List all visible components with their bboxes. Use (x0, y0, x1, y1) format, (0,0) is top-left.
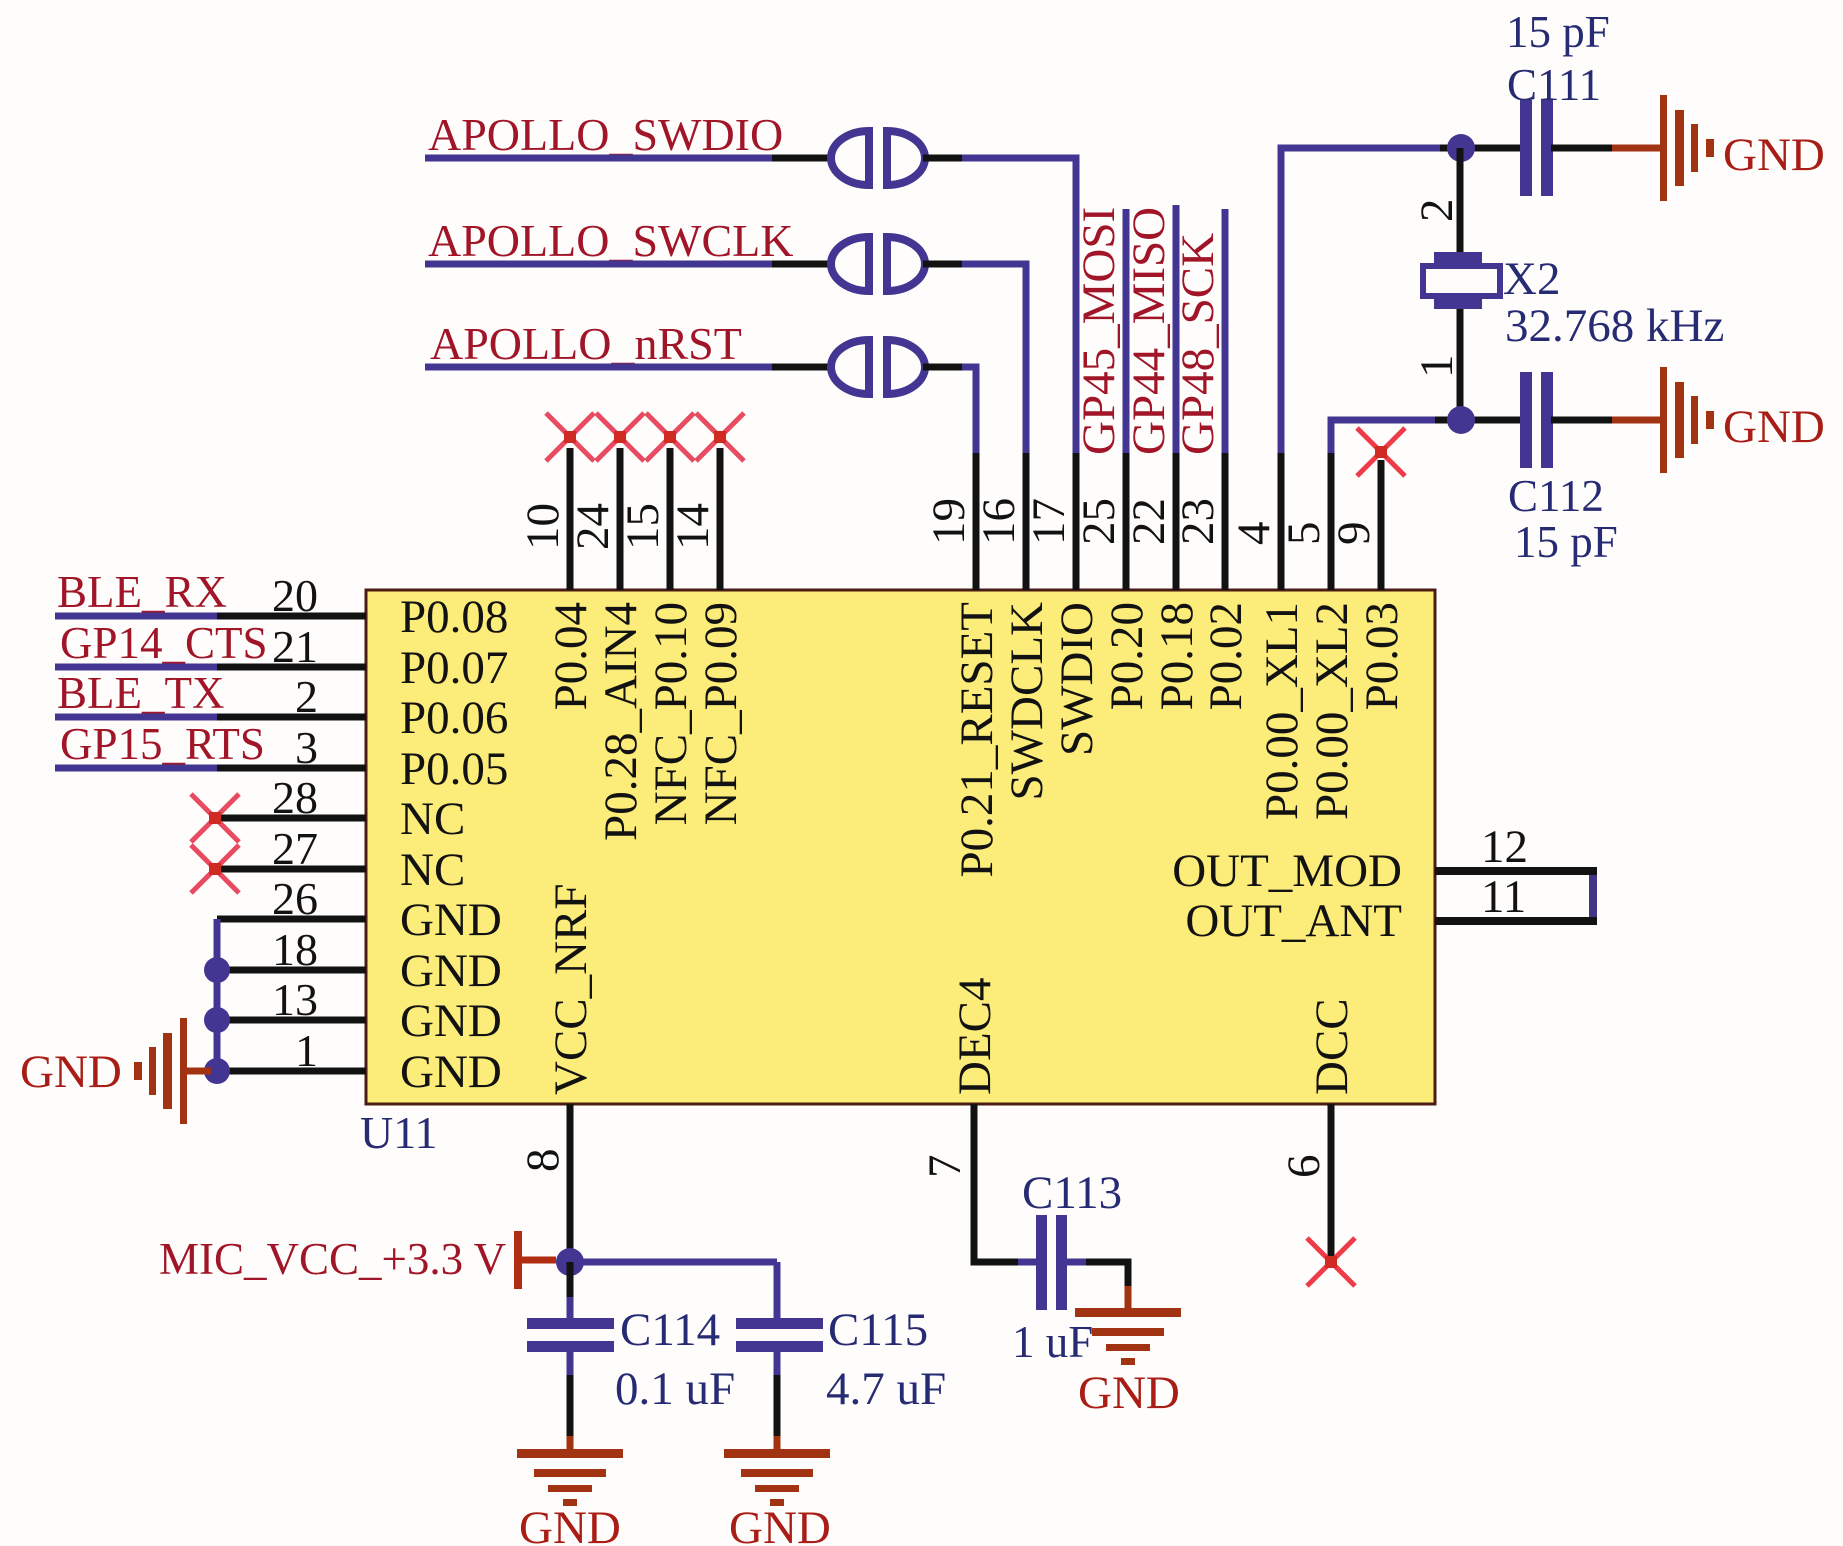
svg-text:27: 27 (272, 823, 318, 874)
wire GND pin 18 (217, 967, 366, 974)
svg-text:1 uF: 1 uF (1012, 1317, 1093, 1367)
wire GP44_MISO to pin 22 (1173, 205, 1180, 453)
capacitor C112 (1520, 372, 1532, 468)
svg-text:GND: GND (1723, 401, 1825, 453)
svg-text:P0.06: P0.06 (400, 692, 508, 744)
svg-text:P0.00_XL2: P0.00_XL2 (1306, 602, 1358, 820)
wire APOLLO_SWCLK to connector (425, 261, 772, 268)
svg-text:4: 4 (1228, 522, 1280, 546)
svg-text:0.1 uF: 0.1 uF (615, 1363, 735, 1415)
svg-text:U11: U11 (360, 1107, 438, 1158)
off-page connector APOLLO_nRST (831, 340, 869, 394)
ground symbol (C114) (517, 1449, 623, 1458)
svg-text:7: 7 (919, 1155, 971, 1179)
ground symbol (left of U11) (180, 1018, 187, 1124)
junction node XL2 (1447, 406, 1475, 434)
GND bus vertical wire (left) (214, 919, 221, 1071)
capacitor C115 (736, 1318, 823, 1329)
svg-text:APOLLO_SWCLK: APOLLO_SWCLK (428, 215, 793, 266)
svg-text:9: 9 (1328, 522, 1380, 546)
wire branch to C115 (774, 1286, 781, 1318)
svg-text:P0.00_XL1: P0.00_XL1 (1256, 602, 1308, 820)
svg-text:15: 15 (617, 503, 669, 550)
svg-text:NC: NC (400, 844, 465, 896)
junction on GND bus at pin 18 (204, 957, 230, 983)
no-connect X on pin 24 (596, 413, 644, 461)
wire stub pin 28 (NC) (215, 815, 366, 822)
wire APOLLO_SWCLK connector to pin 16 (923, 261, 962, 268)
off-page connector APOLLO_SWDIO (831, 131, 869, 185)
ground symbol (C112) (1660, 367, 1667, 473)
wire junction to C114 (567, 1262, 574, 1297)
no-connect X on pin 9 (1357, 428, 1405, 476)
svg-text:GND: GND (400, 945, 502, 997)
svg-text:GND: GND (1723, 129, 1825, 181)
svg-text:12: 12 (1481, 821, 1528, 873)
wire stub pin 14 (717, 448, 724, 590)
node XL2 horizontal wire to C112 (1435, 417, 1520, 424)
wire stub pin 24 (617, 448, 624, 590)
svg-text:X2: X2 (1503, 253, 1560, 305)
svg-text:P0.08: P0.08 (400, 591, 508, 643)
wire net to pin 3 (left, labeled) (55, 765, 217, 772)
svg-text:13: 13 (272, 974, 318, 1025)
svg-text:APOLLO_SWDIO: APOLLO_SWDIO (428, 109, 783, 160)
wire net to pin 20 (left, labeled) (55, 613, 217, 620)
wire C112 to GND (1551, 417, 1612, 424)
svg-text:8: 8 (517, 1149, 569, 1173)
svg-text:GND: GND (20, 1046, 122, 1098)
wire stub pin 27 (NC) (215, 866, 366, 873)
svg-text:20: 20 (272, 570, 318, 621)
wire net to pin 21 (left, labeled) (55, 664, 217, 671)
ground symbol (C111) (1660, 95, 1667, 201)
svg-text:15 pF: 15 pF (1514, 517, 1618, 567)
junction on GND bus at pin 13 (204, 1007, 230, 1033)
svg-text:GP48_SCK: GP48_SCK (1172, 233, 1224, 455)
svg-text:6: 6 (1278, 1155, 1330, 1179)
svg-text:P0.21_RESET: P0.21_RESET (951, 602, 1003, 878)
svg-text:21: 21 (272, 621, 318, 672)
no-connect X on pin 10 (546, 413, 594, 461)
node XL1 horizontal wire to C111 (1440, 145, 1520, 152)
svg-text:GND: GND (1078, 1367, 1180, 1419)
wire APOLLO_nRST to connector (425, 364, 772, 371)
wire APOLLO_SWDIO to connector (425, 155, 772, 162)
wire GND pin 1 (217, 1068, 366, 1075)
wire stub pin 6 (DCC) (1328, 1104, 1335, 1259)
svg-text:32.768 kHz: 32.768 kHz (1505, 300, 1724, 352)
svg-text:NC: NC (400, 793, 465, 845)
svg-text:NFC_P0.10: NFC_P0.10 (645, 602, 697, 825)
svg-text:1: 1 (295, 1025, 318, 1076)
svg-text:11: 11 (1481, 871, 1526, 923)
svg-text:GND: GND (729, 1502, 831, 1546)
svg-text:P0.04: P0.04 (545, 602, 597, 710)
svg-text:BLE_RX: BLE_RX (57, 567, 227, 617)
svg-text:GP15_RTS: GP15_RTS (60, 719, 265, 769)
svg-text:14: 14 (667, 503, 719, 550)
wire pin 5 to crystal node (XL2) (1331, 420, 1435, 453)
no-connect X on pin 27 (191, 845, 239, 893)
wire loop right edge accent (1589, 875, 1597, 917)
svg-text:P0.03: P0.03 (1356, 602, 1408, 710)
junction node XL1 (1447, 134, 1475, 162)
ground symbol (C115) (724, 1449, 830, 1458)
svg-text:OUT_ANT: OUT_ANT (1185, 895, 1402, 947)
wire GND pin 26 (217, 916, 366, 923)
svg-text:18: 18 (272, 924, 318, 975)
svg-text:16: 16 (973, 498, 1025, 545)
svg-text:DCC: DCC (1306, 998, 1358, 1095)
svg-text:GP45_MOSI: GP45_MOSI (1073, 207, 1125, 455)
wire stub pin 15 (667, 448, 674, 590)
no-connect X on pin 6 (1307, 1238, 1355, 1286)
svg-text:C114: C114 (620, 1304, 720, 1356)
wire C111 to GND (1551, 145, 1612, 152)
wire loop pin 12 to pin 11 (1435, 871, 1593, 921)
svg-text:APOLLO_nRST: APOLLO_nRST (430, 318, 742, 369)
ground symbol (C113) (1075, 1308, 1181, 1317)
svg-text:GND: GND (519, 1502, 621, 1546)
svg-text:25: 25 (1073, 498, 1125, 545)
no-connect X on pin 28 (191, 794, 239, 842)
svg-text:GP14_CTS: GP14_CTS (60, 618, 268, 668)
svg-text:GND: GND (400, 995, 502, 1047)
svg-text:3: 3 (295, 722, 318, 773)
svg-text:P0.07: P0.07 (400, 642, 508, 694)
wire GND pin 13 (217, 1017, 366, 1024)
power tap symbol +3.3V (514, 1231, 522, 1289)
wire APOLLO_SWDIO connector to pin 17 (923, 155, 962, 162)
wire C115 to GND (774, 1351, 781, 1375)
svg-text:C112: C112 (1508, 471, 1604, 521)
svg-text:VCC_NRF: VCC_NRF (545, 883, 597, 1095)
svg-text:22: 22 (1123, 498, 1175, 545)
svg-text:23: 23 (1172, 498, 1224, 545)
svg-text:GND: GND (400, 894, 502, 946)
svg-text:GP44_MISO: GP44_MISO (1123, 207, 1175, 455)
svg-text:2: 2 (1411, 199, 1463, 223)
capacitor C111 (1520, 100, 1532, 196)
svg-text:26: 26 (272, 873, 318, 924)
wire GP48_SCK to pin 23 (1222, 209, 1229, 453)
svg-text:28: 28 (272, 772, 318, 823)
svg-text:1: 1 (1411, 355, 1463, 379)
wire C113 to GND (1066, 1259, 1086, 1266)
svg-text:NFC_P0.09: NFC_P0.09 (695, 602, 747, 825)
svg-text:P0.02: P0.02 (1200, 602, 1252, 710)
junction on GND bus at pin 1 (204, 1058, 230, 1084)
wire pin 7 (DEC4) to C113 (974, 1104, 1018, 1262)
svg-text:DEC4: DEC4 (949, 978, 1001, 1096)
wire APOLLO_nRST connector to pin 19 (923, 364, 962, 371)
svg-text:P0.18: P0.18 (1151, 602, 1203, 710)
svg-text:C113: C113 (1022, 1167, 1122, 1219)
svg-text:10: 10 (517, 503, 569, 550)
svg-text:P0.28_AIN4: P0.28_AIN4 (595, 602, 647, 841)
svg-text:SWDCLK: SWDCLK (1001, 602, 1053, 801)
GND symbol stem (left) (183, 1068, 211, 1075)
svg-text:19: 19 (923, 498, 975, 545)
svg-text:5: 5 (1278, 522, 1330, 546)
svg-text:OUT_MOD: OUT_MOD (1172, 845, 1402, 897)
svg-text:BLE_TX: BLE_TX (57, 668, 224, 718)
wire net to pin 2 (left, labeled) (55, 714, 217, 721)
junction power node (556, 1248, 584, 1276)
wire stub pin 9 (1378, 460, 1385, 590)
off-page connector APOLLO_SWCLK (831, 237, 869, 291)
wire crystal pin 1 to XL2 junction (1457, 309, 1464, 420)
svg-text:MIC_VCC_+3.3 V: MIC_VCC_+3.3 V (159, 1234, 506, 1284)
no-connect X on pin 14 (696, 413, 744, 461)
wire pin 8 to power junction (567, 1104, 574, 1262)
wire GP45_MOSI to pin 25 (1123, 209, 1130, 453)
svg-text:2: 2 (295, 671, 318, 722)
wire pin 4 to crystal node (XL1) (1281, 148, 1440, 453)
crystal X2 (1434, 252, 1482, 263)
wire XL1 junction to crystal pin 2 (1457, 148, 1464, 252)
svg-text:P0.05: P0.05 (400, 743, 508, 795)
svg-text:SWDIO: SWDIO (1051, 602, 1103, 756)
capacitor C113 (1036, 1215, 1047, 1310)
IC U11 body (nRF module) (366, 590, 1435, 1104)
svg-text:15 pF: 15 pF (1506, 7, 1610, 57)
svg-text:C115: C115 (828, 1304, 928, 1356)
wire power junction to C115 branch (570, 1259, 777, 1266)
svg-text:P0.20: P0.20 (1101, 602, 1153, 710)
svg-text:17: 17 (1023, 498, 1075, 545)
svg-text:24: 24 (567, 503, 619, 550)
svg-text:GND: GND (400, 1046, 502, 1098)
no-connect X on pin 15 (646, 413, 694, 461)
svg-text:4.7 uF: 4.7 uF (826, 1363, 946, 1415)
wire C114 to GND (567, 1351, 574, 1375)
capacitor C114 (527, 1318, 614, 1329)
wire stub pin 10 (567, 448, 574, 590)
